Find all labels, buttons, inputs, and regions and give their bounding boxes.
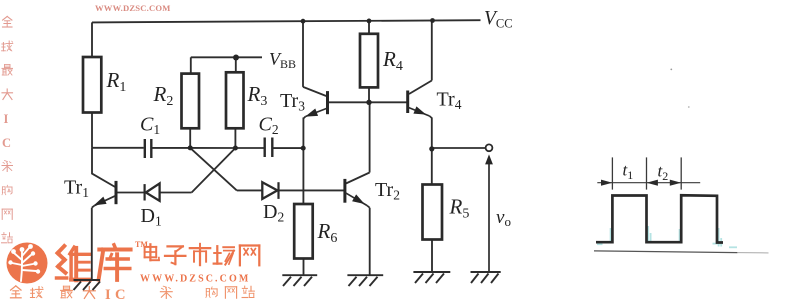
wire cross diagonal R2node to D2: [190, 148, 237, 191]
wire node to Tr1 collector: [92, 148, 116, 188]
waveform axis line faint tail: [737, 252, 768, 254]
svg-text:I: I: [4, 112, 9, 126]
transistor Tr1: [92, 181, 116, 208]
wire Tr1 emitter vertical: [91, 208, 93, 280]
wire VCC rail: [92, 20, 481, 22]
wire Tr2 collector vertical: [369, 102, 371, 172]
svg-text:R5: R5: [449, 195, 470, 222]
wire Tr3 collector diagonal: [303, 87, 326, 96]
junction VCC rail / R4: [367, 19, 372, 24]
waveform dimension line right: [680, 157, 682, 189]
wire R6 junction to Tr2 base: [303, 189, 345, 191]
wire R5 bottom to ground: [431, 240, 433, 272]
svg-text:C1: C1: [140, 114, 160, 138]
svg-text:D2: D2: [263, 201, 284, 225]
svg-text:R3: R3: [247, 82, 268, 109]
wire R2 node to R3 node: [190, 147, 235, 149]
wire R2 bottom: [189, 128, 191, 148]
resistor R4: [360, 34, 378, 88]
wire Tr2 collector diagonal: [346, 173, 370, 184]
wire R4 top riser: [368, 21, 370, 34]
svg-text:t1: t1: [623, 161, 634, 183]
transistor Tr3: [303, 91, 327, 118]
watermark top url: [95, 3, 171, 13]
svg-text:C2: C2: [259, 114, 279, 138]
wire R1 bottom to C-line node: [91, 113, 93, 148]
svg-text:I: I: [105, 287, 111, 302]
waveform cyan artifacts: [597, 226, 737, 247]
wire R2 riser: [190, 57, 192, 73]
wire Tr2 emitter vertical: [369, 208, 371, 276]
svg-text:WWW.DZSC.COM: WWW.DZSC.COM: [95, 3, 171, 13]
wire R6 bottom to ground: [303, 259, 305, 276]
wire Tr4 emitter vertical: [431, 118, 433, 149]
ground under R6: [282, 275, 317, 286]
wire VBB horizontal: [191, 56, 262, 58]
wire D2 to R6 junction: [279, 189, 303, 191]
wire output node to terminal: [432, 147, 485, 149]
resistor R6: [294, 204, 313, 259]
junction output node: [429, 146, 434, 151]
watermark left vertical text: [2, 16, 13, 242]
svg-text:t2: t2: [658, 162, 669, 184]
svg-text:Tr1: Tr1: [64, 177, 89, 201]
junction VCC rail / Tr3 collector: [301, 19, 306, 24]
svg-text:Tr2: Tr2: [375, 179, 400, 203]
transistor Tr4: [408, 91, 432, 119]
svg-text:WWW.DZSC.COM: WWW.DZSC.COM: [140, 274, 250, 285]
wire R1 top riser: [91, 22, 93, 57]
svg-text:VCC: VCC: [484, 8, 513, 31]
waveform pulse trace: [596, 195, 723, 242]
watermark bottom row: [11, 286, 255, 302]
watermark logo circle icon: [7, 243, 48, 284]
junction node R4-base line: [366, 100, 371, 105]
output terminal circle: [486, 144, 493, 151]
waveform arrow line: [597, 180, 700, 186]
wire C2 right to Tr3 emitter line: [274, 147, 304, 149]
wire D2 junction to R6 top: [302, 190, 304, 204]
wire D2 line left: [237, 189, 262, 191]
vo measure arrow line: [485, 154, 493, 271]
wire R3 riser: [235, 57, 237, 72]
wire cross diagonal D1 to R3node: [192, 148, 236, 193]
wire R4 bottom: [368, 87, 370, 102]
watermark 电子市场网: [145, 244, 159, 260]
wire R3 node to C2: [235, 147, 263, 149]
ground under Tr1: [74, 280, 101, 290]
capacitor C2: [265, 138, 273, 158]
wire Tr3 emitter vertical: [302, 118, 304, 149]
resistor R1: [83, 57, 101, 113]
junction VBB line / R3: [233, 55, 239, 61]
wire C-line left: [92, 147, 144, 149]
wire C1 right to R2 node: [153, 147, 191, 149]
wire Tr4 collector diagonal: [409, 81, 432, 95]
svg-text:vo: vo: [496, 207, 511, 229]
wire output node to R5: [431, 149, 433, 184]
diode D2: [262, 182, 278, 199]
capacitor C1: [145, 139, 152, 158]
svg-text:D1: D1: [141, 205, 162, 229]
resistor R3: [226, 72, 244, 128]
diode D1: [145, 183, 160, 200]
waveform dimension line middle: [646, 157, 648, 189]
svg-text:R6: R6: [317, 219, 338, 246]
wire Tr4 collector vertical: [431, 21, 433, 81]
wire D1 right segment: [159, 192, 191, 194]
svg-text:Tr3: Tr3: [280, 90, 305, 114]
watermark 维库: [57, 246, 91, 280]
resistor R2: [182, 74, 200, 129]
transistor Tr2: [345, 179, 370, 208]
junction node C2-Tr3 emitter: [301, 146, 306, 151]
resistor R5: [423, 185, 443, 240]
wire C2 node down to D2 line: [302, 148, 304, 190]
svg-text:VBB: VBB: [269, 49, 296, 71]
junction node C2-R3: [233, 146, 238, 151]
wire Tr3 collector vertical: [302, 21, 304, 87]
ground under vo line: [471, 272, 501, 283]
junction VCC rail / Tr4 collector: [430, 18, 435, 23]
ground under R5: [413, 272, 450, 283]
svg-text:C: C: [2, 136, 11, 150]
waveform axis line: [594, 251, 737, 253]
wire R3 bottom: [234, 128, 236, 148]
wire base line Tr3 to Tr4: [328, 101, 408, 103]
svg-text:R2: R2: [153, 82, 174, 109]
junction node C1-R2: [188, 145, 193, 150]
svg-text:Tr4: Tr4: [437, 89, 462, 113]
svg-text:R4: R4: [382, 47, 403, 74]
wire Tr1 base to D1: [116, 192, 144, 194]
svg-text:C: C: [115, 287, 125, 302]
ground under Tr2: [347, 275, 383, 286]
svg-text:R1: R1: [106, 68, 127, 95]
waveform dimension line t1 left: [611, 157, 613, 189]
